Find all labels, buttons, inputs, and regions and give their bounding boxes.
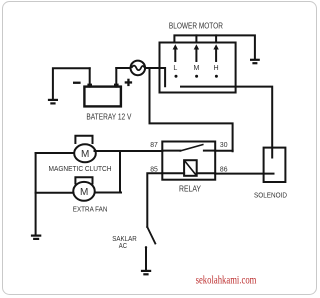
svg-text:H: H: [214, 64, 219, 72]
svg-text:M: M: [80, 187, 88, 198]
svg-text:M: M: [81, 149, 89, 160]
svg-text:87: 87: [150, 140, 158, 149]
svg-text:AC: AC: [119, 241, 128, 250]
svg-text:BATERAY 12 V: BATERAY 12 V: [86, 113, 132, 122]
svg-text:sekolahkami.com: sekolahkami.com: [196, 274, 257, 287]
svg-text:30: 30: [220, 140, 228, 149]
svg-text:MAGNETIC CLUTCH: MAGNETIC CLUTCH: [49, 164, 112, 173]
svg-text:SOLENOID: SOLENOID: [254, 190, 287, 199]
svg-text:L: L: [173, 64, 177, 72]
svg-text:M: M: [193, 64, 199, 72]
svg-text:EXTRA FAN: EXTRA FAN: [73, 204, 108, 213]
svg-text:85: 85: [150, 164, 158, 173]
svg-text:BLOWER MOTOR: BLOWER MOTOR: [169, 21, 223, 30]
svg-text:86: 86: [220, 164, 228, 173]
svg-text:RELAY: RELAY: [179, 185, 202, 194]
